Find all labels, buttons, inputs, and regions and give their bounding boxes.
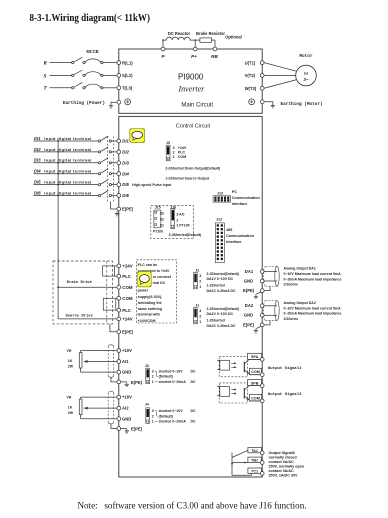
- svg-text:contact 3A/AC: contact 3A/AC: [269, 460, 295, 464]
- svg-text:0~10V Maximum load current 5m: 0~10V Maximum load current 5mA: [284, 272, 342, 276]
- svg-text:250V, 1A/DC 30V: 250V, 1A/DC 30V: [269, 473, 299, 477]
- svg-text:0~10V Maximum load current 5m: 0~10V Maximum load current 5mA: [284, 306, 342, 310]
- svg-text:DI3: DI3: [122, 160, 129, 165]
- svg-text:DI2: DI2: [122, 150, 129, 155]
- svg-text:normally closed: normally closed: [269, 455, 298, 459]
- svg-text:Motor: Motor: [299, 54, 313, 59]
- svg-text:2: 2: [176, 219, 178, 223]
- svg-text:2: 2: [152, 414, 154, 418]
- svg-text:Input digital terminal: Input digital terminal: [44, 136, 91, 141]
- svg-text:S2: S2: [160, 218, 164, 222]
- svg-text:COM: COM: [251, 396, 260, 400]
- svg-text:forbidding the: forbidding the: [138, 301, 162, 305]
- svg-text:DA2C 0-20mA DC: DA2C 0-20mA DC: [207, 324, 237, 328]
- svg-text:2W: 2W: [68, 411, 74, 415]
- svg-text:DC: DC: [191, 420, 197, 424]
- svg-text:2-3Shorted Drain Output(Defaul: 2-3Shorted Drain Output(Default): [165, 166, 220, 170]
- svg-text:Output Signal3: Output Signal3: [269, 451, 295, 455]
- svg-text:VR: VR: [67, 396, 72, 400]
- svg-text:DC Reactor: DC Reactor: [168, 31, 191, 36]
- svg-text:DI4: DI4: [34, 169, 41, 174]
- svg-text:R(L1): R(L1): [122, 60, 133, 65]
- svg-text:2: 2: [199, 315, 201, 319]
- svg-text:J3: J3: [145, 364, 149, 368]
- svg-text:SPB: SPB: [251, 381, 259, 385]
- svg-text:2: 2: [173, 150, 175, 154]
- svg-text:J15: J15: [155, 205, 161, 209]
- svg-text:DI3: DI3: [34, 158, 41, 163]
- svg-text:or connect: or connect: [153, 275, 172, 279]
- svg-text:1-2Shorted: 1-2Shorted: [207, 284, 225, 288]
- svg-text:GND: GND: [244, 278, 253, 283]
- svg-text:Interface: Interface: [226, 240, 241, 244]
- svg-text:2-3Shorted(Default): 2-3Shorted(Default): [207, 272, 239, 276]
- svg-text:COM: COM: [251, 370, 260, 374]
- svg-text:Input digital terminal: Input digital terminal: [44, 180, 91, 185]
- svg-text:DI2: DI2: [34, 147, 41, 152]
- svg-text:shorted 0~20mA: shorted 0~20mA: [159, 420, 187, 424]
- svg-text:Main Circuit: Main Circuit: [181, 103, 213, 109]
- svg-text:J4: J4: [145, 402, 149, 406]
- svg-text:DI6: DI6: [34, 190, 41, 195]
- svg-text:DI1: DI1: [122, 139, 129, 144]
- svg-text:PLC can be: PLC can be: [138, 263, 158, 267]
- svg-text:+10V: +10V: [122, 348, 132, 353]
- svg-text:Earthing (Motor): Earthing (Motor): [281, 102, 323, 107]
- svg-text:supply(9-30V),: supply(9-30V),: [138, 295, 163, 299]
- svg-text:2-3Shorted(Default): 2-3Shorted(Default): [207, 307, 239, 311]
- svg-text:P+: P+: [191, 54, 197, 59]
- svg-text:J1: J1: [195, 304, 199, 308]
- svg-text:Control Circuit: Control Circuit: [176, 124, 211, 130]
- svg-text:same earthing: same earthing: [138, 307, 162, 311]
- svg-text:2-3Shorted(Default): 2-3Shorted(Default): [169, 233, 201, 237]
- svg-text:3: 3: [199, 274, 201, 278]
- svg-text:COM: COM: [122, 285, 133, 290]
- svg-text:Drain Drive: Drain Drive: [67, 280, 93, 285]
- svg-text:PI9000: PI9000: [178, 72, 204, 81]
- svg-text:COM: COM: [122, 296, 133, 301]
- svg-text:AI2: AI2: [122, 406, 129, 411]
- svg-text:DC: DC: [191, 369, 197, 373]
- svg-text:+10V: +10V: [122, 395, 132, 400]
- svg-text:1: 1: [152, 420, 154, 424]
- svg-text:T(L3): T(L3): [122, 86, 133, 91]
- svg-text:1: 1: [173, 155, 175, 159]
- svg-text:M: M: [304, 71, 308, 77]
- svg-text:DI1: DI1: [34, 136, 41, 141]
- svg-text:Communication: Communication: [232, 196, 261, 200]
- svg-text:DA2: DA2: [245, 303, 254, 308]
- svg-text:W(T3): W(T3): [245, 86, 257, 91]
- svg-text:Input digital terminal: Input digital terminal: [44, 169, 91, 174]
- svg-text:Earthing (Power): Earthing (Power): [63, 101, 105, 106]
- svg-text:Interface: Interface: [232, 202, 247, 206]
- svg-text:1: 1: [199, 285, 201, 289]
- svg-text:3~: 3~: [304, 77, 309, 82]
- svg-text:PLC: PLC: [122, 308, 132, 313]
- svg-text:0~20mA Maximum load impedance: 0~20mA Maximum load impedance: [284, 277, 342, 281]
- svg-text:1K: 1K: [68, 405, 73, 409]
- svg-text:terminal with: terminal with: [138, 313, 160, 317]
- svg-text:(Default): (Default): [159, 414, 173, 418]
- svg-text:3: 3: [199, 309, 201, 313]
- svg-text:contact 3A/AC: contact 3A/AC: [269, 469, 295, 473]
- svg-text:J2: J2: [195, 269, 199, 273]
- svg-text:PC: PC: [232, 190, 237, 194]
- svg-text:High-speed Pulse Input: High-speed Pulse Input: [132, 183, 172, 187]
- svg-text:J5: J5: [166, 141, 170, 145]
- svg-text:1-2Shorted Source Output: 1-2Shorted Source Output: [165, 176, 209, 180]
- svg-text:Input digital terminal: Input digital terminal: [44, 147, 91, 152]
- svg-text:+24V: +24V: [122, 317, 132, 322]
- svg-text:shorted 0~20mA: shorted 0~20mA: [159, 380, 187, 384]
- svg-text:E(PE): E(PE): [122, 329, 134, 334]
- svg-text:U(T1): U(T1): [245, 60, 256, 65]
- svg-text:Output Signal2: Output Signal2: [268, 392, 302, 397]
- svg-text:DI5: DI5: [122, 182, 129, 187]
- svg-text:R: R: [44, 61, 48, 67]
- svg-text:Input digital terminal: Input digital terminal: [44, 158, 91, 163]
- svg-text:SPA: SPA: [251, 355, 259, 359]
- svg-text:DI5: DI5: [34, 180, 41, 185]
- svg-text:1-2Shorted: 1-2Shorted: [207, 319, 225, 323]
- svg-text:S1: S1: [160, 224, 164, 228]
- svg-text:S(L2): S(L2): [122, 73, 133, 78]
- svg-text:+24V: +24V: [178, 146, 187, 150]
- svg-text:MCCB: MCCB: [86, 49, 98, 54]
- svg-text:Inverter: Inverter: [178, 85, 206, 94]
- svg-text:power: power: [138, 288, 149, 292]
- svg-text:(Default): (Default): [159, 375, 173, 379]
- svg-text:PLC: PLC: [122, 274, 132, 279]
- svg-text:VR: VR: [67, 349, 72, 353]
- svg-text:shorted 0~10V: shorted 0~10V: [159, 369, 184, 373]
- svg-text:GND: GND: [122, 370, 131, 375]
- svg-text:shorted 0~10V: shorted 0~10V: [159, 409, 184, 413]
- svg-text:COM: COM: [178, 155, 186, 159]
- svg-text:DC: DC: [191, 409, 197, 413]
- svg-text:1: 1: [152, 380, 154, 384]
- svg-text:GND: GND: [244, 313, 253, 318]
- svg-text:TC1: TC1: [251, 469, 258, 473]
- svg-text:PLC: PLC: [178, 150, 186, 154]
- svg-text:DI4: DI4: [122, 171, 129, 176]
- svg-text:Source Drive: Source Drive: [66, 313, 94, 318]
- svg-text:2/10ohm: 2/10ohm: [284, 317, 298, 321]
- svg-text:Output Signal1: Output Signal1: [268, 366, 302, 371]
- svg-text:Communication: Communication: [226, 234, 255, 238]
- svg-text:2/10ohm: 2/10ohm: [284, 283, 298, 287]
- svg-text:E(PE): E(PE): [131, 380, 143, 385]
- svg-text:1: 1: [199, 320, 201, 324]
- svg-text:Input digital terminal: Input digital terminal: [44, 190, 91, 195]
- svg-text:0~20mA Maximum load impedance: 0~20mA Maximum load impedance: [284, 312, 342, 316]
- svg-text:Note: software version of C3.: Note: software version of C3.00 and abov…: [78, 501, 307, 511]
- svg-text:Analog Output DA1: Analog Output DA1: [284, 267, 316, 271]
- svg-text:PT100: PT100: [153, 230, 163, 234]
- svg-text:J13: J13: [217, 192, 223, 196]
- svg-text:Optional: Optional: [225, 35, 242, 40]
- svg-text:3: 3: [173, 146, 175, 150]
- svg-text:AI1: AI1: [122, 359, 129, 364]
- svg-text:DC: DC: [191, 380, 197, 384]
- svg-text:S: S: [44, 73, 47, 79]
- svg-text:485: 485: [226, 228, 232, 232]
- svg-text:E(PE): E(PE): [122, 207, 134, 212]
- svg-text:RB: RB: [211, 54, 218, 59]
- svg-text:Brake Resistor: Brake Resistor: [196, 31, 225, 36]
- svg-text:8-3-1.Wiring diagram(< 11kW): 8-3-1.Wiring diagram(< 11kW): [30, 13, 151, 24]
- svg-text:+24V/COM: +24V/COM: [138, 319, 156, 323]
- svg-text:3: 3: [152, 409, 154, 413]
- svg-text:DA1C 0-20mA DC: DA1C 0-20mA DC: [207, 289, 237, 293]
- svg-text:3: 3: [152, 369, 154, 373]
- svg-text:J12: J12: [216, 218, 222, 222]
- svg-text:V(T2): V(T2): [245, 73, 256, 78]
- svg-text:rnal DC: rnal DC: [153, 281, 166, 285]
- svg-text:DA1V 0~10V DC: DA1V 0~10V DC: [207, 277, 234, 281]
- svg-text:DI6: DI6: [122, 193, 129, 198]
- svg-text:+24V: +24V: [122, 264, 132, 269]
- svg-text:250V, normally open: 250V, normally open: [269, 464, 305, 468]
- svg-text:3 AO: 3 AO: [176, 212, 184, 216]
- svg-text:E(PE): E(PE): [243, 288, 255, 293]
- svg-text:2W: 2W: [68, 364, 74, 368]
- svg-text:1 PT100: 1 PT100: [176, 223, 189, 227]
- svg-text:Analog Output DA2: Analog Output DA2: [284, 301, 316, 305]
- svg-text:TA1: TA1: [251, 449, 258, 453]
- svg-text:S2: S2: [160, 211, 164, 215]
- svg-text:DA2V 0~10V DC: DA2V 0~10V DC: [207, 312, 234, 316]
- svg-text:1K: 1K: [68, 359, 73, 363]
- svg-text:GND: GND: [122, 416, 131, 421]
- svg-text:E(PE): E(PE): [243, 322, 255, 327]
- svg-text:2: 2: [152, 375, 154, 379]
- svg-text:E(PE): E(PE): [131, 427, 143, 432]
- svg-text:DA1: DA1: [245, 269, 254, 274]
- svg-text:2: 2: [199, 280, 201, 284]
- svg-text:TB1: TB1: [251, 459, 258, 463]
